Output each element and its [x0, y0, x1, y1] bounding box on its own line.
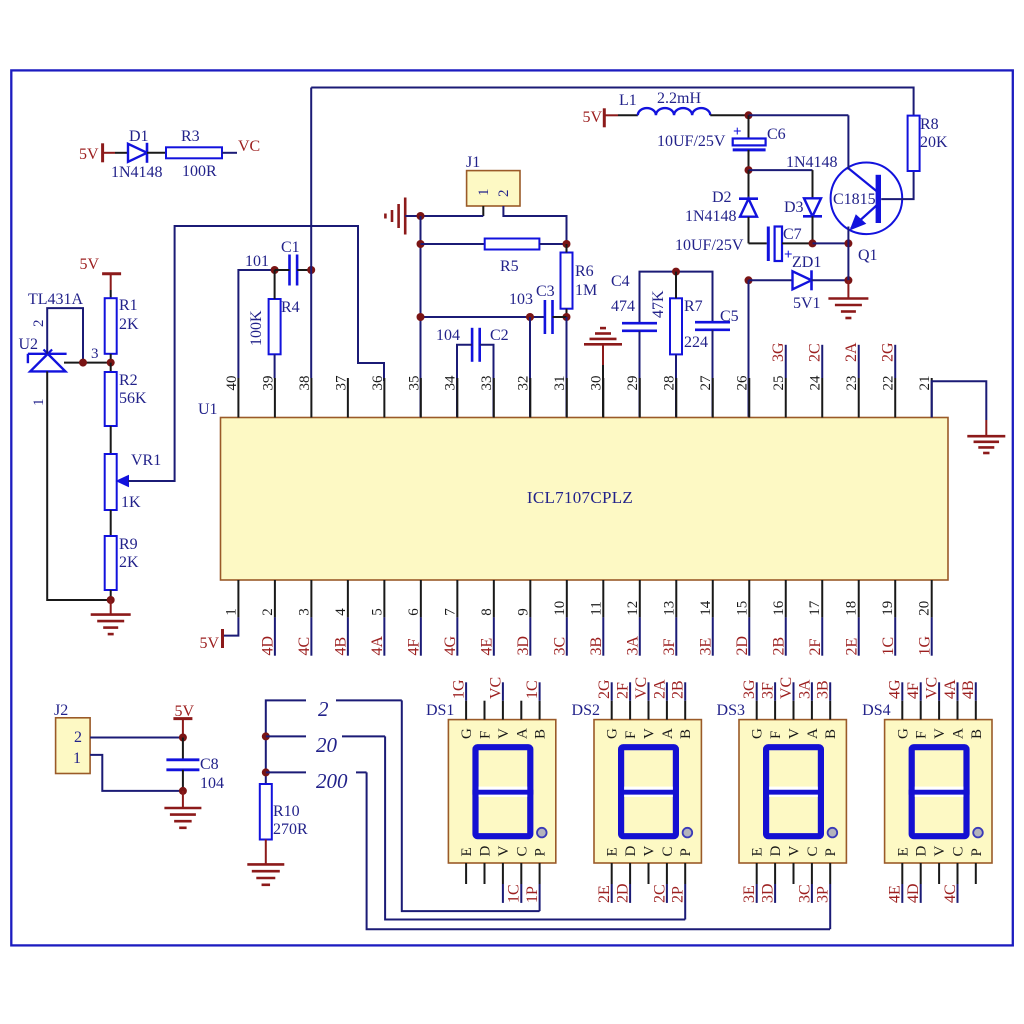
DS4 pin F (top): [920, 701, 922, 720]
wire R2 to VR1: [110, 426, 112, 454]
wire D1 to R3: [147, 152, 166, 154]
wire node to Q1 collector: [749, 114, 849, 116]
svg-text:40: 40: [224, 376, 240, 391]
junction C1 left / R4 top: [271, 266, 279, 274]
wire to ground: [110, 600, 112, 615]
svg-text:224: 224: [684, 334, 708, 351]
svg-text:B: B: [678, 729, 694, 739]
DS3 pin C (bottom): [811, 863, 813, 884]
svg-text:15: 15: [734, 601, 750, 616]
svg-text:27: 27: [698, 375, 714, 391]
DS4 pin B (top): [975, 701, 977, 720]
svg-text:D: D: [768, 846, 784, 857]
wire pin32: [529, 317, 531, 418]
DS2 pin G (top): [611, 701, 613, 720]
resistor R5: [485, 239, 540, 250]
svg-text:3E: 3E: [697, 638, 714, 656]
U1 pin 17 (bottom): [821, 580, 823, 617]
svg-text:1: 1: [476, 189, 492, 197]
DS1 pin V (top): [502, 701, 504, 720]
svg-text:A: A: [951, 728, 967, 739]
svg-text:V: V: [787, 846, 803, 857]
svg-text:5: 5: [369, 608, 385, 616]
svg-text:3G: 3G: [770, 342, 787, 362]
wire R1 to node 3: [110, 354, 112, 363]
svg-text:R6: R6: [575, 263, 594, 280]
svg-text:2B: 2B: [670, 680, 687, 699]
display DS3: [739, 720, 846, 863]
svg-text:1: 1: [73, 750, 81, 767]
svg-text:C: C: [660, 846, 676, 856]
svg-text:C1: C1: [281, 239, 300, 256]
U1 pin 2 (bottom): [274, 580, 276, 617]
junction range 20: [262, 732, 270, 740]
svg-text:101: 101: [245, 253, 269, 270]
svg-text:2K: 2K: [119, 554, 139, 571]
DS2 pin F (top): [629, 701, 631, 720]
DS1 pin B (top): [539, 701, 541, 720]
U1 pin 31: [566, 378, 568, 418]
svg-text:5V: 5V: [199, 635, 219, 652]
svg-text:34: 34: [443, 375, 459, 391]
svg-text:C: C: [951, 846, 967, 856]
svg-text:31: 31: [552, 376, 568, 391]
svg-text:1N4148: 1N4148: [111, 164, 163, 181]
svg-text:5V: 5V: [79, 256, 99, 273]
svg-text:B: B: [823, 729, 839, 739]
wire D2 node to D3: [749, 169, 813, 171]
svg-text:4D: 4D: [260, 636, 277, 656]
wire R4 top: [274, 270, 276, 299]
U1 pin 26: [748, 378, 750, 418]
DS4 pin P (bottom): [975, 863, 977, 884]
svg-text:D: D: [914, 846, 930, 857]
wire R5 right: [539, 243, 566, 245]
svg-text:7: 7: [442, 608, 458, 616]
DS3 pin G (top): [756, 701, 758, 720]
svg-text:10UF/25V: 10UF/25V: [675, 237, 744, 254]
U1 pin 14 (bottom): [712, 580, 714, 617]
DS2 pin V (bottom): [648, 863, 650, 884]
U1 pin 8 (bottom): [493, 580, 495, 617]
resistor R9: [105, 536, 117, 590]
svg-text:200: 200: [316, 769, 348, 793]
capacitor C7 (electrolytic): [749, 242, 767, 244]
resistor R2: [105, 372, 117, 426]
svg-text:ZD1: ZD1: [792, 254, 821, 271]
svg-text:F: F: [478, 731, 494, 739]
DS3 pin V (top): [793, 701, 795, 720]
svg-text:A: A: [660, 728, 676, 739]
svg-text:4A: 4A: [369, 636, 386, 656]
wire R10 to ground: [265, 840, 267, 865]
svg-text:56K: 56K: [119, 390, 147, 407]
top rail wire to R8: [311, 88, 913, 116]
svg-text:12: 12: [625, 601, 641, 616]
svg-text:4B: 4B: [333, 637, 350, 656]
svg-text:P: P: [678, 848, 694, 856]
U1 pin 22: [894, 378, 896, 418]
resistor R10: [260, 784, 272, 840]
DS2 decimal point: [683, 828, 693, 838]
svg-text:V: V: [787, 728, 803, 739]
wire pin26 net vertical: [748, 280, 750, 417]
svg-text:32: 32: [516, 376, 532, 391]
svg-text:C6: C6: [767, 126, 786, 143]
U1 pin 37: [347, 378, 349, 418]
svg-text:3B: 3B: [588, 637, 605, 656]
junction pin35 / R5 row: [417, 240, 425, 248]
wire pin38 net up to top rail: [310, 88, 312, 271]
svg-text:A: A: [514, 728, 530, 739]
ground (R10): [247, 863, 284, 866]
connector J1: [467, 171, 520, 206]
svg-text:L1: L1: [619, 92, 637, 109]
svg-text:2: 2: [74, 729, 82, 746]
5V power symbol (pin 1): [221, 629, 224, 648]
svg-text:11: 11: [588, 601, 604, 615]
svg-text:103: 103: [509, 291, 533, 308]
svg-text:C2: C2: [490, 327, 509, 344]
wire range net 20: [266, 735, 306, 737]
svg-text:D1: D1: [129, 128, 149, 145]
bus wire net 2 to DS1: [402, 700, 540, 911]
DS4 pin V (bottom): [938, 863, 940, 884]
svg-text:Q1: Q1: [858, 247, 878, 264]
junction Q1 emitter / ground net: [844, 239, 852, 247]
U1 pin 15 (bottom): [748, 580, 750, 617]
U1 pin 9 (bottom): [529, 580, 531, 617]
wire R5 row: [421, 243, 485, 245]
svg-text:1: 1: [223, 608, 239, 616]
DS4 decimal point: [973, 828, 983, 838]
resistor R3: [166, 147, 222, 158]
resistor R6: [561, 253, 573, 309]
svg-text:V: V: [496, 728, 512, 739]
svg-text:2F: 2F: [807, 639, 824, 656]
wire C5 to pin27: [712, 330, 714, 418]
svg-text:474: 474: [611, 298, 635, 315]
junction C8 top: [179, 734, 187, 742]
bus wire net 200 to DS3: [367, 772, 830, 929]
svg-text:J1: J1: [466, 154, 480, 171]
DS2 pin B (top): [684, 701, 686, 720]
svg-text:A: A: [805, 728, 821, 739]
svg-text:C: C: [805, 846, 821, 856]
svg-text:+: +: [733, 124, 742, 140]
svg-text:DS3: DS3: [717, 702, 745, 719]
DS2 pin C (bottom): [666, 863, 668, 884]
U1 pin 13 (bottom): [675, 580, 677, 617]
svg-text:4B: 4B: [960, 680, 977, 699]
svg-text:3C: 3C: [552, 637, 569, 656]
svg-text:4E: 4E: [479, 638, 496, 656]
wire C4 to pin29: [639, 331, 641, 418]
svg-text:U1: U1: [198, 401, 218, 418]
DS3 pin V (bottom): [793, 863, 795, 884]
svg-text:104: 104: [200, 775, 224, 792]
svg-text:C: C: [514, 846, 530, 856]
DS3 pin P (bottom): [829, 863, 831, 884]
svg-text:1N4148: 1N4148: [685, 208, 737, 225]
svg-text:R4: R4: [281, 299, 300, 316]
svg-text:1C: 1C: [506, 884, 523, 903]
junction C7 right / D3 bottom: [809, 239, 817, 247]
DS1 pin E (bottom): [465, 863, 467, 884]
wire R4 to pin39: [274, 354, 276, 378]
U1 pin 16 (bottom): [785, 580, 787, 617]
svg-text:V: V: [642, 728, 658, 739]
U1 pin 23: [858, 378, 860, 418]
U1 pin 38: [310, 378, 312, 418]
svg-text:3: 3: [91, 346, 99, 362]
resistor R1: [105, 298, 117, 354]
U1 pin21 wire to ground: [932, 381, 987, 420]
svg-text:3: 3: [296, 608, 312, 616]
U1 pin 12 (bottom): [639, 580, 641, 617]
U1 pin 11 (bottom): [602, 580, 604, 617]
DS1 pin A (top): [520, 701, 522, 720]
5V power symbol (D1 branch): [101, 143, 104, 162]
wire C1 left: [275, 269, 290, 271]
svg-text:F: F: [768, 731, 784, 739]
svg-text:C7: C7: [783, 226, 802, 243]
svg-text:DS1: DS1: [426, 702, 454, 719]
U1 pin 20 (bottom): [931, 580, 933, 617]
svg-text:2E: 2E: [596, 885, 613, 903]
wire 5V to L1: [604, 114, 618, 116]
zener diode ZD1: [749, 279, 795, 281]
svg-text:R3: R3: [181, 128, 200, 145]
wire pin35 vertical: [420, 216, 422, 418]
wire R6 top: [566, 244, 568, 253]
U1 pin 34: [456, 378, 458, 418]
wire C8 to ground: [182, 791, 184, 808]
svg-text:E: E: [459, 847, 475, 856]
junction C3 right / R6 / pin31: [563, 313, 571, 321]
ground (J1, rotated): [404, 198, 407, 235]
svg-text:1C: 1C: [524, 680, 541, 699]
svg-text:2K: 2K: [119, 316, 139, 333]
svg-text:VC: VC: [487, 677, 504, 699]
svg-text:4C: 4C: [296, 637, 313, 656]
DS4 pin V (top): [938, 701, 940, 720]
svg-text:36: 36: [370, 375, 386, 391]
ground (left chain): [91, 613, 131, 616]
svg-text:10UF/25V: 10UF/25V: [657, 133, 726, 150]
svg-text:R9: R9: [119, 536, 138, 553]
svg-text:35: 35: [406, 376, 422, 391]
inductor L1: [638, 108, 710, 115]
U1 pin 32: [529, 378, 531, 418]
wire C1 right: [297, 269, 311, 271]
DS1 pin C (bottom): [520, 863, 522, 884]
svg-text:B: B: [533, 729, 549, 739]
resistor R8: [908, 116, 920, 171]
svg-text:E: E: [895, 847, 911, 856]
wire U2 pin1 down: [47, 371, 110, 600]
display DS2: [594, 720, 701, 863]
DS1 pin V (bottom): [502, 863, 504, 884]
svg-text:3E: 3E: [741, 885, 758, 903]
junction ZD1 right / ground net: [844, 276, 852, 284]
svg-text:R10: R10: [273, 803, 300, 820]
capacitor C4: [622, 322, 657, 325]
svg-text:U2: U2: [19, 336, 39, 353]
svg-text:2A: 2A: [651, 679, 668, 699]
svg-text:2C: 2C: [651, 884, 668, 903]
svg-text:3P: 3P: [815, 886, 832, 903]
junction U2 loop / node3: [79, 359, 87, 367]
svg-text:25: 25: [771, 376, 787, 391]
DS1 decimal point: [537, 828, 547, 838]
svg-text:2: 2: [31, 320, 47, 328]
svg-text:2G: 2G: [596, 679, 613, 699]
svg-text:5V: 5V: [582, 109, 602, 126]
svg-text:R7: R7: [684, 298, 703, 315]
svg-text:C1815: C1815: [833, 191, 876, 208]
junction range 200: [262, 768, 270, 776]
U1 pin 29: [639, 378, 641, 418]
resistor R7: [670, 298, 682, 354]
wire C7/D3 to Q1 emitter: [813, 242, 849, 244]
DS4 pin C (bottom): [957, 863, 959, 884]
svg-text:3F: 3F: [760, 682, 777, 699]
svg-text:C4: C4: [611, 273, 630, 290]
svg-text:2P: 2P: [670, 886, 687, 903]
capacitor C3: [544, 300, 547, 334]
junction pin35 / C3 row: [417, 313, 425, 321]
svg-text:VC: VC: [238, 138, 260, 155]
svg-text:E: E: [750, 847, 766, 856]
DS1 seven-segment digit: [476, 747, 531, 836]
svg-text:ICL7107CPLZ: ICL7107CPLZ: [527, 488, 633, 507]
wire J2 pin2 to C8: [90, 737, 183, 739]
DS1 pin P (bottom): [539, 863, 541, 884]
wire VR1 wiper loop to pin36: [128, 226, 384, 481]
svg-text:F: F: [623, 731, 639, 739]
wire pin40 up to C1 node: [238, 270, 274, 378]
svg-text:3A: 3A: [796, 679, 813, 699]
DS2 pin P (bottom): [684, 863, 686, 884]
wire C2 left to pin34: [457, 345, 472, 418]
svg-text:2.2mH: 2.2mH: [657, 90, 701, 107]
wire R7 to pin28: [675, 354, 677, 417]
svg-text:R2: R2: [119, 372, 138, 389]
svg-text:2C: 2C: [807, 343, 824, 362]
svg-text:P: P: [823, 848, 839, 856]
svg-text:D: D: [623, 846, 639, 857]
svg-text:100K: 100K: [248, 310, 265, 346]
svg-text:2G: 2G: [880, 342, 897, 362]
wire R9 to ground: [110, 590, 112, 600]
svg-text:V: V: [932, 846, 948, 857]
svg-text:22: 22: [881, 376, 897, 391]
svg-text:DS4: DS4: [862, 702, 890, 719]
svg-text:V: V: [642, 846, 658, 857]
svg-text:20: 20: [316, 733, 338, 757]
capacitor C8: [182, 738, 184, 760]
svg-text:8: 8: [479, 608, 495, 616]
U1 pin 18 (bottom): [858, 580, 860, 617]
DS3 pin D (bottom): [774, 863, 776, 884]
capacitor C6 (electrolytic): [748, 115, 750, 138]
svg-text:1M: 1M: [575, 282, 597, 299]
svg-text:18: 18: [844, 601, 860, 616]
svg-text:3G: 3G: [741, 679, 758, 699]
svg-text:DS2: DS2: [572, 702, 600, 719]
svg-text:2: 2: [260, 608, 276, 616]
svg-text:D2: D2: [712, 189, 732, 206]
svg-text:3A: 3A: [624, 636, 641, 656]
svg-text:6: 6: [406, 608, 422, 616]
svg-text:1G: 1G: [451, 679, 468, 699]
svg-text:4: 4: [333, 608, 349, 616]
U1 pin 1 (bottom): [237, 580, 239, 617]
wire VR1 to R9: [110, 510, 112, 536]
svg-text:E: E: [605, 847, 621, 856]
svg-text:2F: 2F: [615, 682, 632, 699]
U1 pin 10 (bottom): [566, 580, 568, 617]
bus wire net 20 to DS2: [385, 736, 685, 919]
svg-text:13: 13: [661, 601, 677, 616]
svg-text:F: F: [914, 731, 930, 739]
svg-text:3D: 3D: [515, 636, 532, 656]
svg-text:TL431A: TL431A: [28, 291, 84, 308]
ground (Q1 emitter): [828, 297, 868, 300]
Q1 emitter wire to ground: [847, 227, 849, 281]
svg-text:4G: 4G: [887, 679, 904, 699]
DS4 pin A (top): [957, 701, 959, 720]
svg-text:2: 2: [318, 697, 329, 721]
wire range net 2: [266, 700, 306, 784]
junction R9/U2 ground node: [107, 596, 115, 604]
wire R7 top: [675, 272, 677, 299]
svg-text:2: 2: [496, 190, 512, 198]
U1 pin 4 (bottom): [347, 580, 349, 617]
wire Q1 ground: [847, 280, 849, 298]
svg-text:270R: 270R: [273, 821, 308, 838]
svg-text:2D: 2D: [615, 883, 632, 903]
junction R7 top: [672, 268, 680, 276]
svg-text:G: G: [459, 728, 475, 739]
display DS1: [448, 720, 555, 863]
svg-text:1: 1: [31, 399, 47, 407]
display DS4: [885, 720, 992, 863]
svg-text:3B: 3B: [815, 680, 832, 699]
junction ZD1 row left: [745, 276, 753, 284]
DS1 pin G (top): [465, 701, 467, 720]
svg-text:29: 29: [625, 376, 641, 391]
svg-text:17: 17: [807, 600, 823, 616]
svg-text:4C: 4C: [942, 884, 959, 903]
svg-text:C3: C3: [536, 283, 555, 300]
svg-text:VC: VC: [778, 677, 795, 699]
svg-text:39: 39: [260, 376, 276, 391]
svg-text:38: 38: [297, 376, 313, 391]
svg-text:B: B: [969, 729, 985, 739]
DS3 pin E (bottom): [756, 863, 758, 884]
wire node3 to R2: [110, 363, 112, 372]
svg-text:R1: R1: [119, 297, 138, 314]
DS2 pin D (bottom): [629, 863, 631, 884]
U1 pin 35: [420, 378, 422, 418]
svg-text:4F: 4F: [905, 682, 922, 699]
svg-text:104: 104: [436, 327, 460, 344]
DS3 pin B (top): [829, 701, 831, 720]
U1 pin 19 (bottom): [894, 580, 896, 617]
wire C3 right: [553, 316, 567, 318]
